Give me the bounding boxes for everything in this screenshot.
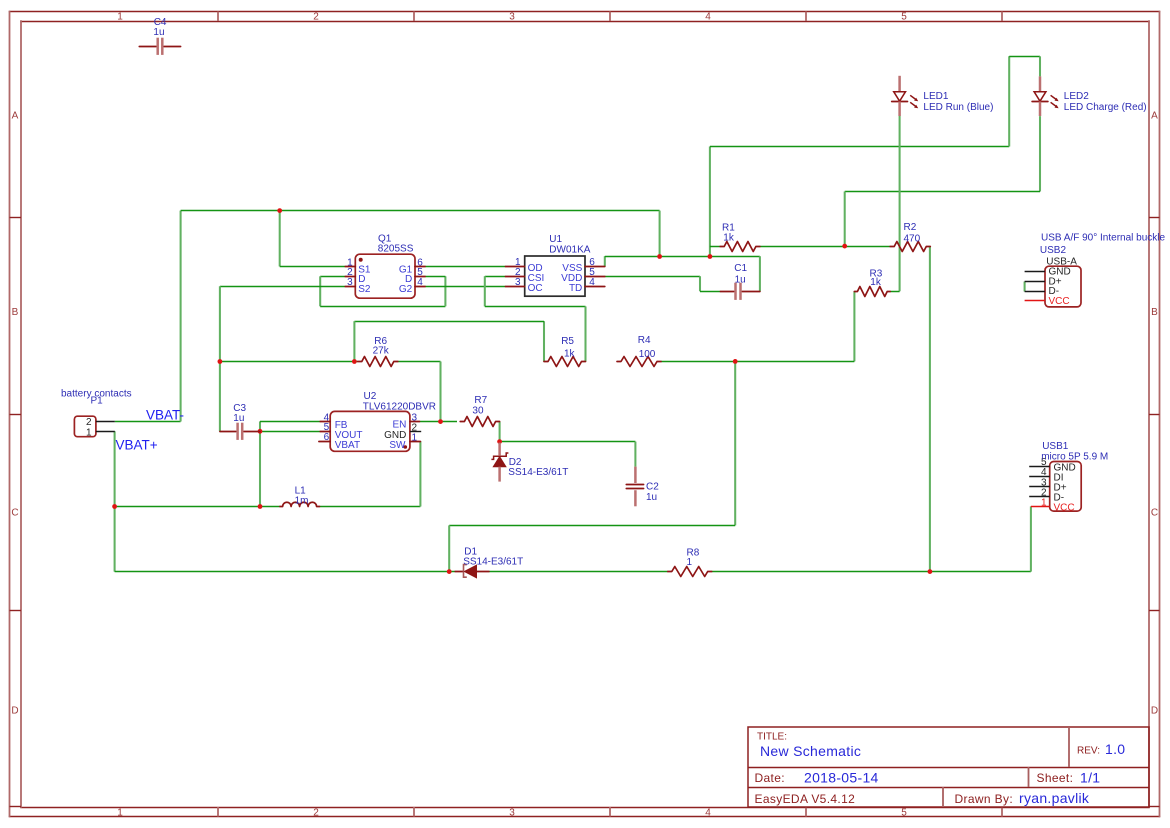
wire USB1 VCC riser	[1030, 506, 1032, 571]
connector P1 body	[74, 416, 114, 437]
svg-text:New Schematic: New Schematic	[760, 743, 861, 759]
svg-text:S2: S2	[358, 284, 371, 295]
resistor R8	[668, 567, 712, 577]
svg-text:TD: TD	[569, 283, 582, 294]
svg-text:TITLE:: TITLE:	[757, 732, 787, 743]
junction VSS / LED feed	[708, 254, 713, 259]
R3 value 1k	[870, 277, 882, 288]
wire D1 to R8	[489, 571, 668, 573]
wire L1 to SW riser	[320, 506, 421, 508]
wire jog down to D1 rail	[448, 525, 450, 571]
svg-text:C2: C2	[646, 482, 659, 493]
junction VBAT- / S1 drop	[277, 208, 282, 213]
wire drop to Q1 S1	[280, 211, 346, 267]
U2 pin numbers	[324, 412, 418, 443]
wire R3 left drop	[853, 291, 855, 361]
svg-text:4: 4	[705, 12, 711, 23]
svg-text:1.0: 1.0	[1105, 741, 1125, 757]
wire VBAT- top horizontal	[181, 210, 660, 212]
R3 refdes	[870, 269, 883, 280]
svg-text:VCC: VCC	[1054, 502, 1075, 513]
wire FB link horizontal	[260, 421, 320, 423]
wire link down to R6 rail	[353, 321, 355, 361]
inductor L1	[280, 502, 320, 506]
wire CSI under U1	[485, 306, 586, 308]
transistor Q1 body	[345, 254, 425, 298]
svg-text:D: D	[11, 706, 18, 717]
D2 refdes	[509, 457, 522, 468]
R6 value 27k	[373, 346, 390, 357]
Date value	[804, 770, 879, 786]
wire VSS up	[604, 256, 606, 266]
wire jog left	[449, 525, 735, 527]
svg-text:EN: EN	[392, 420, 406, 431]
junction VBAT+ / L1 rail	[112, 504, 117, 509]
wire C1 right riser	[759, 256, 761, 291]
wire R1 left link	[710, 246, 720, 248]
svg-text:1k: 1k	[870, 277, 882, 288]
capacitor C2	[626, 467, 643, 507]
svg-text:3: 3	[509, 807, 515, 818]
R4 refdes	[638, 335, 651, 346]
svg-text:470: 470	[904, 234, 921, 245]
LED1 refdes	[923, 91, 948, 102]
resistor R5	[544, 357, 586, 367]
svg-text:1: 1	[687, 557, 693, 568]
svg-text:OC: OC	[528, 283, 543, 294]
svg-text:1: 1	[1041, 497, 1047, 508]
wire LED2 cathode horizontal	[845, 191, 1040, 193]
title block table	[748, 727, 1149, 807]
capacitor C1	[720, 283, 760, 300]
R7 refdes	[474, 395, 487, 406]
Q1 value 8205SS	[378, 244, 414, 255]
L1 value 1m	[295, 495, 309, 506]
wire Q1 D pin2 left	[320, 276, 345, 278]
D2 value	[508, 467, 568, 478]
svg-text:3: 3	[509, 12, 515, 23]
wire CSI drop	[484, 276, 486, 306]
wire LED2 feed top	[1009, 56, 1040, 58]
net label VBAT+	[116, 438, 158, 453]
wire FB link vertical	[259, 421, 261, 431]
USB2 pin names	[1049, 266, 1071, 307]
EasyEDA version	[755, 792, 856, 806]
svg-text:5: 5	[901, 12, 907, 23]
svg-text:4: 4	[705, 807, 711, 818]
wire R8 to USB1 rail	[712, 571, 1031, 573]
resistor R1	[720, 242, 760, 252]
USB2 value USB-A	[1046, 256, 1077, 267]
wire LED feed top	[710, 146, 1009, 148]
svg-text:1m: 1m	[295, 495, 309, 506]
wire VOUT link	[260, 431, 320, 433]
R7 value 30	[472, 405, 484, 416]
svg-text:1u: 1u	[735, 275, 746, 286]
svg-text:C: C	[1151, 508, 1158, 519]
junction D1 rail / R2 drop	[928, 569, 933, 574]
C4 value 1u	[153, 27, 164, 38]
junction R6 rail / R5 link	[352, 359, 357, 364]
wire R6 rail	[220, 361, 358, 363]
junction EN node	[438, 419, 443, 424]
C3 value 1u	[233, 413, 244, 424]
wire VBAT- vertical riser	[180, 211, 182, 422]
wire drop from R4 rail	[734, 361, 736, 525]
svg-text:R4: R4	[638, 335, 651, 346]
junction D2 node	[497, 439, 502, 444]
C2 refdes	[646, 482, 659, 493]
resistor R6	[358, 357, 398, 367]
svg-text:27k: 27k	[373, 346, 390, 357]
wire VDD down to C1	[699, 276, 701, 291]
junction D1 rail / jog drop	[447, 569, 452, 574]
wire LED2 feed riser	[1008, 56, 1010, 146]
svg-text:2: 2	[313, 12, 319, 23]
wire R5 upper link	[354, 321, 544, 323]
svg-text:USB2: USB2	[1040, 245, 1067, 256]
svg-text:1/1: 1/1	[1080, 770, 1100, 786]
svg-text:R2: R2	[904, 222, 917, 233]
svg-text:ryan.pavlik: ryan.pavlik	[1019, 790, 1090, 806]
P1 pin numbers	[86, 417, 92, 438]
wire C3 column vertical	[219, 286, 221, 431]
D1 refdes	[464, 547, 477, 558]
svg-text:A: A	[12, 111, 19, 122]
title New Schematic	[760, 743, 861, 759]
connector USB2 body	[1025, 266, 1081, 307]
wire EN drop	[439, 362, 441, 422]
diode D1	[455, 565, 489, 578]
IC U1 body	[506, 256, 605, 296]
L1 refdes	[295, 485, 307, 496]
svg-text:1: 1	[86, 427, 92, 438]
capacitor C4	[139, 38, 180, 55]
junction R4 rail / drop	[733, 359, 738, 364]
wire USB2 D+ D- bracket	[1024, 282, 1026, 292]
svg-text:5: 5	[901, 807, 907, 818]
C1 value 1u	[735, 275, 746, 286]
svg-text:VBAT: VBAT	[335, 440, 360, 451]
svg-text:LED1: LED1	[923, 91, 948, 102]
connector USB1 body	[1029, 462, 1081, 512]
svg-text:2018-05-14: 2018-05-14	[804, 770, 879, 786]
svg-text:SS14-E3/61T: SS14-E3/61T	[463, 556, 523, 567]
R2 value 470	[904, 234, 921, 245]
R5 value 1k	[564, 348, 576, 359]
svg-text:100: 100	[639, 349, 656, 360]
resistor R2	[890, 242, 930, 252]
P1 label battery contacts	[61, 388, 132, 399]
junction C3 / FB / VOUT node	[258, 429, 263, 434]
U1 pin numbers	[515, 257, 595, 288]
wire R3 right link	[890, 291, 899, 293]
junction VSS / VBAT- drop	[657, 254, 662, 259]
svg-text:3: 3	[515, 277, 521, 288]
wire C2 top lead drop	[634, 442, 636, 467]
R1 refdes	[722, 223, 735, 234]
R8 value 1	[687, 557, 693, 568]
wire SW riser	[419, 441, 421, 506]
svg-text:USB A/F 90° Internal buckle: USB A/F 90° Internal buckle	[1041, 233, 1166, 244]
svg-text:R5: R5	[561, 336, 574, 347]
wire R2 drop long	[929, 246, 931, 571]
LED2 value	[1064, 102, 1147, 113]
wire down to R5 right	[584, 306, 586, 361]
D1 value	[463, 556, 523, 567]
wire C1 left link	[700, 291, 720, 293]
Date label	[755, 771, 785, 785]
LED2	[1032, 76, 1059, 116]
wire R7 right drop	[499, 422, 501, 442]
wire R5 left riser	[543, 321, 545, 361]
svg-text:B: B	[1151, 307, 1158, 318]
wire Q1 G1 to U1 OD	[425, 266, 506, 268]
C4 label	[154, 17, 167, 28]
wire R1-R2 rail	[760, 246, 890, 248]
svg-text:USB-A: USB-A	[1046, 256, 1077, 267]
wire LED feed vertical	[709, 147, 711, 257]
svg-text:D: D	[1151, 706, 1158, 717]
svg-text:1u: 1u	[233, 413, 244, 424]
R8 refdes	[687, 548, 700, 559]
svg-text:LED Run (Blue): LED Run (Blue)	[923, 102, 993, 113]
svg-text:1k: 1k	[723, 233, 735, 244]
junction R6 rail / C3 column	[218, 359, 223, 364]
resistor R4	[617, 357, 661, 367]
U2 pin names	[335, 420, 407, 451]
R6 refdes	[374, 336, 387, 347]
C2 value 1u	[646, 492, 657, 503]
wire Q1 D loop left vert	[319, 276, 321, 306]
wire LED2 cathode to R1R2 rail	[844, 192, 846, 247]
junction R1R2 rail / LED2 drop	[842, 244, 847, 249]
USB2 header label	[1041, 233, 1166, 244]
R5 refdes	[561, 336, 574, 347]
USB1 value	[1041, 452, 1108, 463]
svg-text:VBAT-: VBAT-	[146, 408, 184, 423]
wire P1.2 to VBAT- riser	[115, 421, 181, 423]
svg-text:C1: C1	[734, 263, 747, 274]
svg-text:1k: 1k	[564, 348, 576, 359]
wire LED1 cathode long drop	[899, 116, 901, 292]
USB1 pin numbers	[1041, 457, 1047, 508]
R4 value 100	[639, 349, 656, 360]
Drawn By label	[955, 792, 1014, 806]
LED2 refdes	[1064, 91, 1089, 102]
svg-text:1: 1	[412, 432, 418, 443]
wire Q1 D pin5 right	[425, 276, 445, 278]
svg-text:8205SS: 8205SS	[378, 244, 414, 255]
U1 refdes	[549, 234, 562, 245]
svg-text:1u: 1u	[646, 492, 657, 503]
LED1 value	[923, 102, 993, 113]
svg-text:EasyEDA V5.4.12: EasyEDA V5.4.12	[755, 792, 856, 806]
USB2 refdes	[1040, 245, 1067, 256]
wire VBAT+ bottom rail	[115, 571, 456, 573]
wire L1 rail left	[115, 506, 280, 508]
svg-text:G2: G2	[399, 284, 413, 295]
svg-text:1: 1	[117, 807, 123, 818]
wire R6 right to EN drop	[398, 361, 441, 363]
svg-text:6: 6	[324, 432, 330, 443]
svg-text:2: 2	[86, 417, 92, 428]
wire Q1 D loop right vert	[444, 276, 446, 306]
U1 pin names	[528, 263, 583, 294]
svg-text:30: 30	[472, 405, 484, 416]
LED1	[892, 76, 919, 116]
wire Q1 G2 to U1 OC	[425, 286, 506, 288]
wire U1 VDD right	[605, 276, 700, 278]
svg-text:Drawn By:: Drawn By:	[955, 792, 1014, 806]
R1 value 1k	[723, 233, 735, 244]
wire D2 node to C2	[500, 441, 636, 443]
wire LED2 cathode drop	[1039, 116, 1041, 191]
svg-text:B: B	[12, 307, 19, 318]
net label VBAT-	[146, 408, 184, 423]
REV label	[1077, 746, 1100, 757]
svg-text:VCC: VCC	[1049, 296, 1070, 307]
wire LED2 anode drop	[1039, 56, 1041, 76]
svg-text:Date:: Date:	[755, 771, 785, 785]
R2 refdes	[904, 222, 917, 233]
resistor R3	[854, 287, 890, 297]
P1 refdes	[91, 396, 104, 407]
svg-text:4: 4	[417, 277, 423, 288]
svg-text:4: 4	[589, 277, 595, 288]
wire U1 CSI left	[485, 276, 506, 278]
svg-text:A: A	[1151, 111, 1158, 122]
Q1 pin names	[358, 264, 412, 295]
wire Q1 D loop bottom	[320, 306, 445, 308]
wire R4 to R3 rail	[661, 361, 854, 363]
resistor R7	[460, 417, 499, 427]
IC U2 body	[319, 411, 421, 451]
USB1 pin names	[1054, 462, 1076, 513]
diode D2	[491, 443, 508, 482]
wire VSS rail	[605, 256, 760, 258]
svg-text:1: 1	[117, 12, 123, 23]
svg-text:1u: 1u	[153, 27, 164, 38]
USB1 refdes	[1042, 441, 1069, 452]
wire VBAT+ drop	[114, 431, 116, 571]
svg-text:DW01KA: DW01KA	[549, 244, 590, 255]
svg-text:LED2: LED2	[1064, 91, 1089, 102]
Sheet label	[1037, 771, 1074, 785]
svg-text:2: 2	[313, 807, 319, 818]
svg-text:P1: P1	[91, 396, 104, 407]
svg-text:micro 5P 5.9 M: micro 5P 5.9 M	[1041, 452, 1108, 463]
svg-text:TLV61220DBVR: TLV61220DBVR	[363, 401, 436, 412]
svg-text:3: 3	[347, 277, 353, 288]
svg-text:LED Charge (Red): LED Charge (Red)	[1064, 102, 1147, 113]
C3 refdes	[233, 403, 246, 414]
Drawn By value	[1019, 790, 1090, 806]
U1 value DW01KA	[549, 244, 590, 255]
wire Q1 S2 to C3 column	[220, 286, 345, 288]
U2 value TLV61220DBVR	[363, 401, 436, 412]
wire C3 node down to L1 rail	[259, 431, 261, 506]
svg-text:SS14-E3/61T: SS14-E3/61T	[508, 467, 568, 478]
junction L1 rail / C3 column	[258, 504, 263, 509]
REV value 1.0	[1105, 741, 1125, 757]
wire EN to R7	[420, 421, 458, 423]
Q1 refdes	[378, 234, 392, 245]
capacitor C3	[220, 423, 260, 440]
U2 refdes	[364, 391, 377, 402]
svg-text:VBAT+: VBAT+	[116, 438, 158, 453]
svg-text:U2: U2	[364, 391, 377, 402]
C1 refdes	[734, 263, 747, 274]
svg-text:REV:: REV:	[1077, 746, 1100, 757]
title block TITLE label	[757, 732, 787, 743]
Q1 pin numbers	[347, 257, 423, 288]
svg-text:Sheet:: Sheet:	[1037, 771, 1074, 785]
svg-text:C: C	[11, 508, 18, 519]
Sheet value 1/1	[1080, 770, 1100, 786]
wire VBAT- drop to VSS rail	[659, 211, 661, 257]
svg-text:SW: SW	[389, 440, 406, 451]
